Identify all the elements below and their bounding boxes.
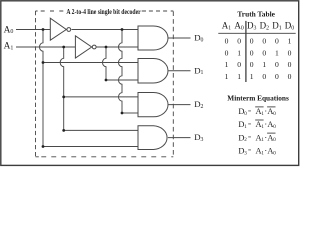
junction dot /A1 corner <box>105 79 108 82</box>
minterm equation D2 <box>238 133 276 143</box>
dashed decoder box left border <box>35 11 37 157</box>
svg-text:0: 0 <box>275 72 279 81</box>
inverter U1 (A0 -> /A0) <box>50 18 66 40</box>
wire: A0 branch to AND2 upper input <box>43 62 138 64</box>
AND gate G1 (D0) <box>138 26 168 50</box>
svg-text:0: 0 <box>273 111 276 117</box>
svg-text:0: 0 <box>250 60 254 69</box>
svg-text:0: 0 <box>288 72 292 81</box>
wire: /A1 feed to AND2 lower input <box>106 79 138 81</box>
wire: D3 output <box>168 137 191 139</box>
svg-text:1: 1 <box>262 60 266 69</box>
svg-text:0: 0 <box>250 37 254 46</box>
wire: D0 output <box>168 37 191 39</box>
svg-text:1: 1 <box>237 72 241 81</box>
junction dot on A1 rail <box>62 46 65 49</box>
svg-text:0: 0 <box>225 48 229 57</box>
svg-text:0: 0 <box>275 60 279 69</box>
svg-text:0: 0 <box>262 37 266 46</box>
wire: A1 input lead <box>16 46 75 48</box>
svg-text:0: 0 <box>273 124 276 130</box>
AND gate G3 (D2) <box>138 93 168 117</box>
AND gate G2 (D1) <box>138 59 168 84</box>
wire: /A0 rail (inverter U1 output to AND1 upper input) <box>72 29 139 31</box>
svg-text:0: 0 <box>288 48 292 57</box>
dashed decoder box top border right segment <box>142 10 174 12</box>
svg-text:Truth Table: Truth Table <box>237 11 275 19</box>
dashed decoder box bottom border <box>36 156 174 158</box>
svg-text:0: 0 <box>275 37 279 46</box>
wire: A1 feed to AND4 upper input <box>64 129 138 131</box>
svg-text:1: 1 <box>237 48 241 57</box>
svg-text:3: 3 <box>244 150 247 156</box>
svg-text:2: 2 <box>244 137 247 143</box>
svg-text:0: 0 <box>237 37 241 46</box>
svg-text:0: 0 <box>244 111 247 117</box>
wire: A1 branch to AND3 upper input <box>64 96 138 98</box>
junction dot A1 branch <box>62 96 65 99</box>
junction dot on A0 rail <box>42 28 45 31</box>
truth table column divider bar <box>245 21 247 82</box>
dashed decoder box top border left segment <box>36 10 64 12</box>
svg-text:1: 1 <box>225 60 229 69</box>
svg-text:1: 1 <box>275 48 279 57</box>
svg-text:0: 0 <box>237 60 241 69</box>
truth table header row <box>222 21 295 32</box>
svg-text:0: 0 <box>225 37 229 46</box>
wire: A0 feed to AND4 lower input <box>43 146 138 148</box>
wire: /A1 vertical feed with hop over AND2 upper rail <box>103 47 107 80</box>
AND gate G4 (D3) <box>138 126 167 150</box>
wire: A0 vertical feed with hop over A1 rail <box>40 30 44 147</box>
wire: /A0 feed to AND3 lower input <box>122 112 138 114</box>
wire: /A1 rail (inverter U2 output to AND1 lower input) <box>96 46 138 48</box>
minterm equation D1 <box>238 120 276 130</box>
truth table data rows <box>225 37 292 81</box>
junction dot on /A0 rail <box>121 28 124 31</box>
svg-text:0: 0 <box>288 60 292 69</box>
junction dot A0 corner <box>42 145 45 148</box>
svg-text:0: 0 <box>273 150 276 156</box>
svg-text:1: 1 <box>288 37 292 46</box>
svg-text:Minterm Equations: Minterm Equations <box>227 95 289 103</box>
minterm equation D0 <box>238 107 276 117</box>
svg-text:0: 0 <box>262 48 266 57</box>
outer frame <box>1 1 299 166</box>
minterm equation D3 <box>238 146 276 156</box>
svg-text:0: 0 <box>250 48 254 57</box>
wire: A0 input lead <box>16 29 50 31</box>
junction dot on /A1 rail <box>105 46 108 49</box>
svg-text:1: 1 <box>225 72 229 81</box>
dashed decoder box right border <box>172 11 174 156</box>
wire: D1 output <box>168 70 190 72</box>
wire: A1 vertical feed with hop over AND2 upper rail <box>60 47 63 130</box>
svg-text:1: 1 <box>244 124 247 130</box>
svg-text:1: 1 <box>250 72 254 81</box>
svg-text:0: 0 <box>273 137 276 143</box>
junction dot A0 branch <box>42 61 45 64</box>
junction dot /A0 corner <box>121 112 124 115</box>
svg-text:A 2-to-4 line single bit decod: A 2-to-4 line single bit decoder <box>66 8 140 16</box>
truth table header rule <box>218 32 295 34</box>
wire: D2 output <box>168 104 190 106</box>
wire: /A0 vertical feed with hops over four rails <box>118 30 122 114</box>
inverter U2 (A1 -> /A1) <box>75 36 91 58</box>
svg-text:0: 0 <box>262 72 266 81</box>
junction dot A1 corner <box>62 129 65 132</box>
